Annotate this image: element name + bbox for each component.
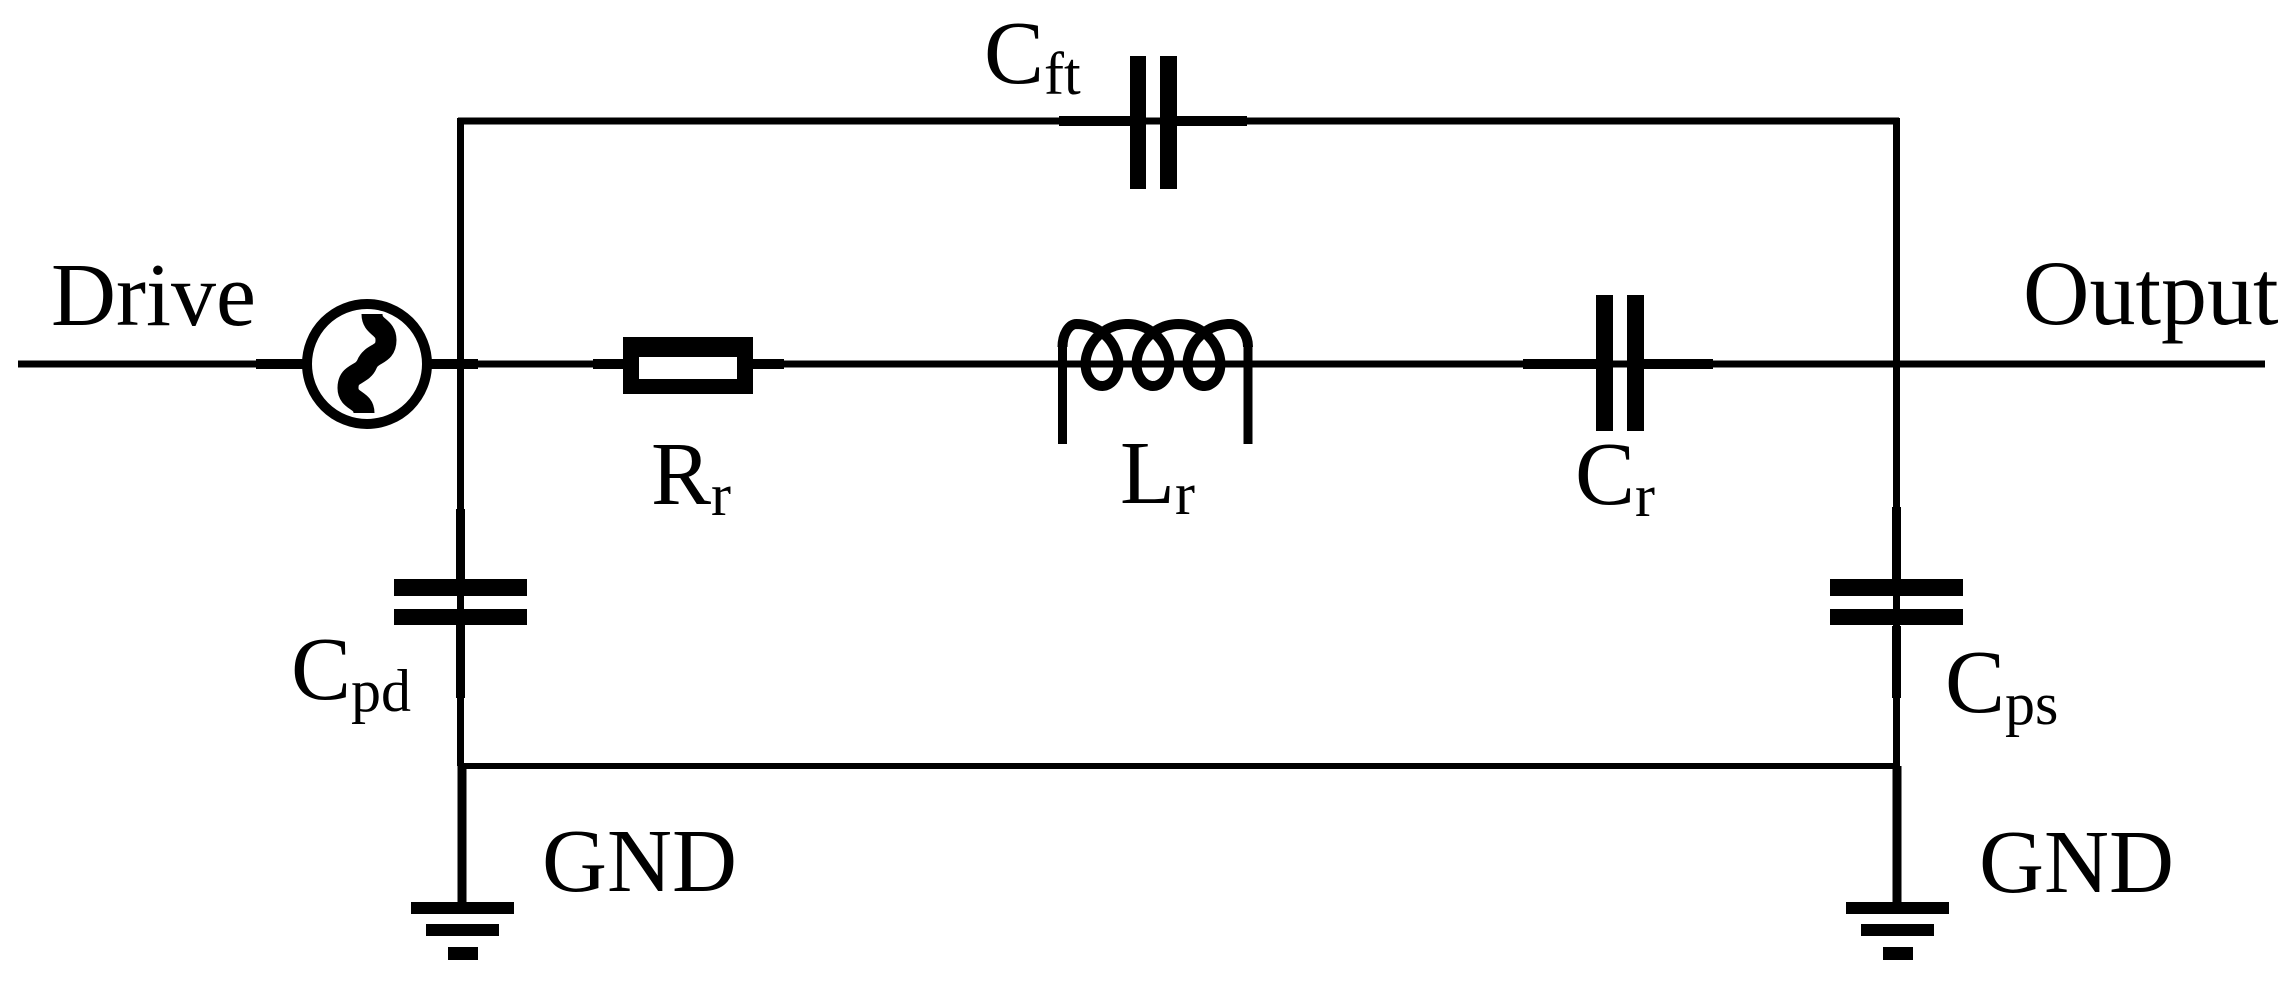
- capacitor Cpd bottom plate: [394, 609, 527, 625]
- capacitor Cr right plate: [1627, 295, 1644, 431]
- ground right bar1: [1846, 902, 1949, 914]
- svg-text:Output: Output: [2023, 242, 2279, 344]
- wire left vertical rail x=461: [457, 118, 464, 766]
- capacitor Cps top plate: [1830, 579, 1963, 596]
- wire pin resistor right: [752, 359, 784, 369]
- wire pin source right: [430, 359, 478, 369]
- svg-text:Drive: Drive: [51, 246, 256, 345]
- wire pin Cpd top: [456, 509, 465, 580]
- source V1 drive AC source circle: [307, 304, 427, 424]
- ground right bar3: [1883, 947, 1913, 960]
- capacitor Cft right plate: [1160, 56, 1177, 189]
- ground right bar2: [1861, 924, 1934, 936]
- inductor Lr coil: [1063, 324, 1249, 386]
- wire right ground stub: [1893, 766, 1902, 903]
- wire pin source left: [256, 359, 304, 369]
- capacitor Cps bottom plate: [1830, 609, 1963, 625]
- resistor Rr body: [623, 337, 753, 394]
- capacitor Cpd top plate: [394, 579, 527, 596]
- svg-text:GND: GND: [542, 812, 737, 911]
- source V1 sine glyph: [348, 314, 386, 413]
- wire top feedthrough rail y=121: [458, 118, 1899, 125]
- capacitor Cr left plate: [1596, 295, 1613, 431]
- wire pin Cps top: [1892, 507, 1901, 579]
- wire pin Cft right: [1176, 116, 1247, 126]
- wire pin Cps bottom: [1892, 626, 1901, 698]
- ground left bar2: [426, 924, 499, 936]
- inductor Lr right leg: [1244, 344, 1253, 444]
- wire left ground stub: [458, 766, 467, 903]
- wire pin capacitor Cr right: [1644, 359, 1713, 369]
- wire right vertical rail x=1896: [1893, 118, 1900, 766]
- wire bottom ground rail y=766: [458, 763, 1900, 769]
- capacitor Cft left plate: [1130, 56, 1146, 189]
- wire pin Cft left: [1059, 116, 1131, 126]
- wire main horizontal Drive-to-Output: [18, 361, 2265, 368]
- ground left bar1: [411, 902, 514, 914]
- svg-text:GND: GND: [1979, 813, 2174, 912]
- wire pin capacitor Cr left: [1523, 359, 1596, 369]
- inductor Lr left leg: [1058, 344, 1067, 444]
- wire pin resistor left: [593, 359, 624, 369]
- wire pin Cpd bottom: [456, 625, 465, 698]
- ground left bar3: [448, 947, 478, 960]
